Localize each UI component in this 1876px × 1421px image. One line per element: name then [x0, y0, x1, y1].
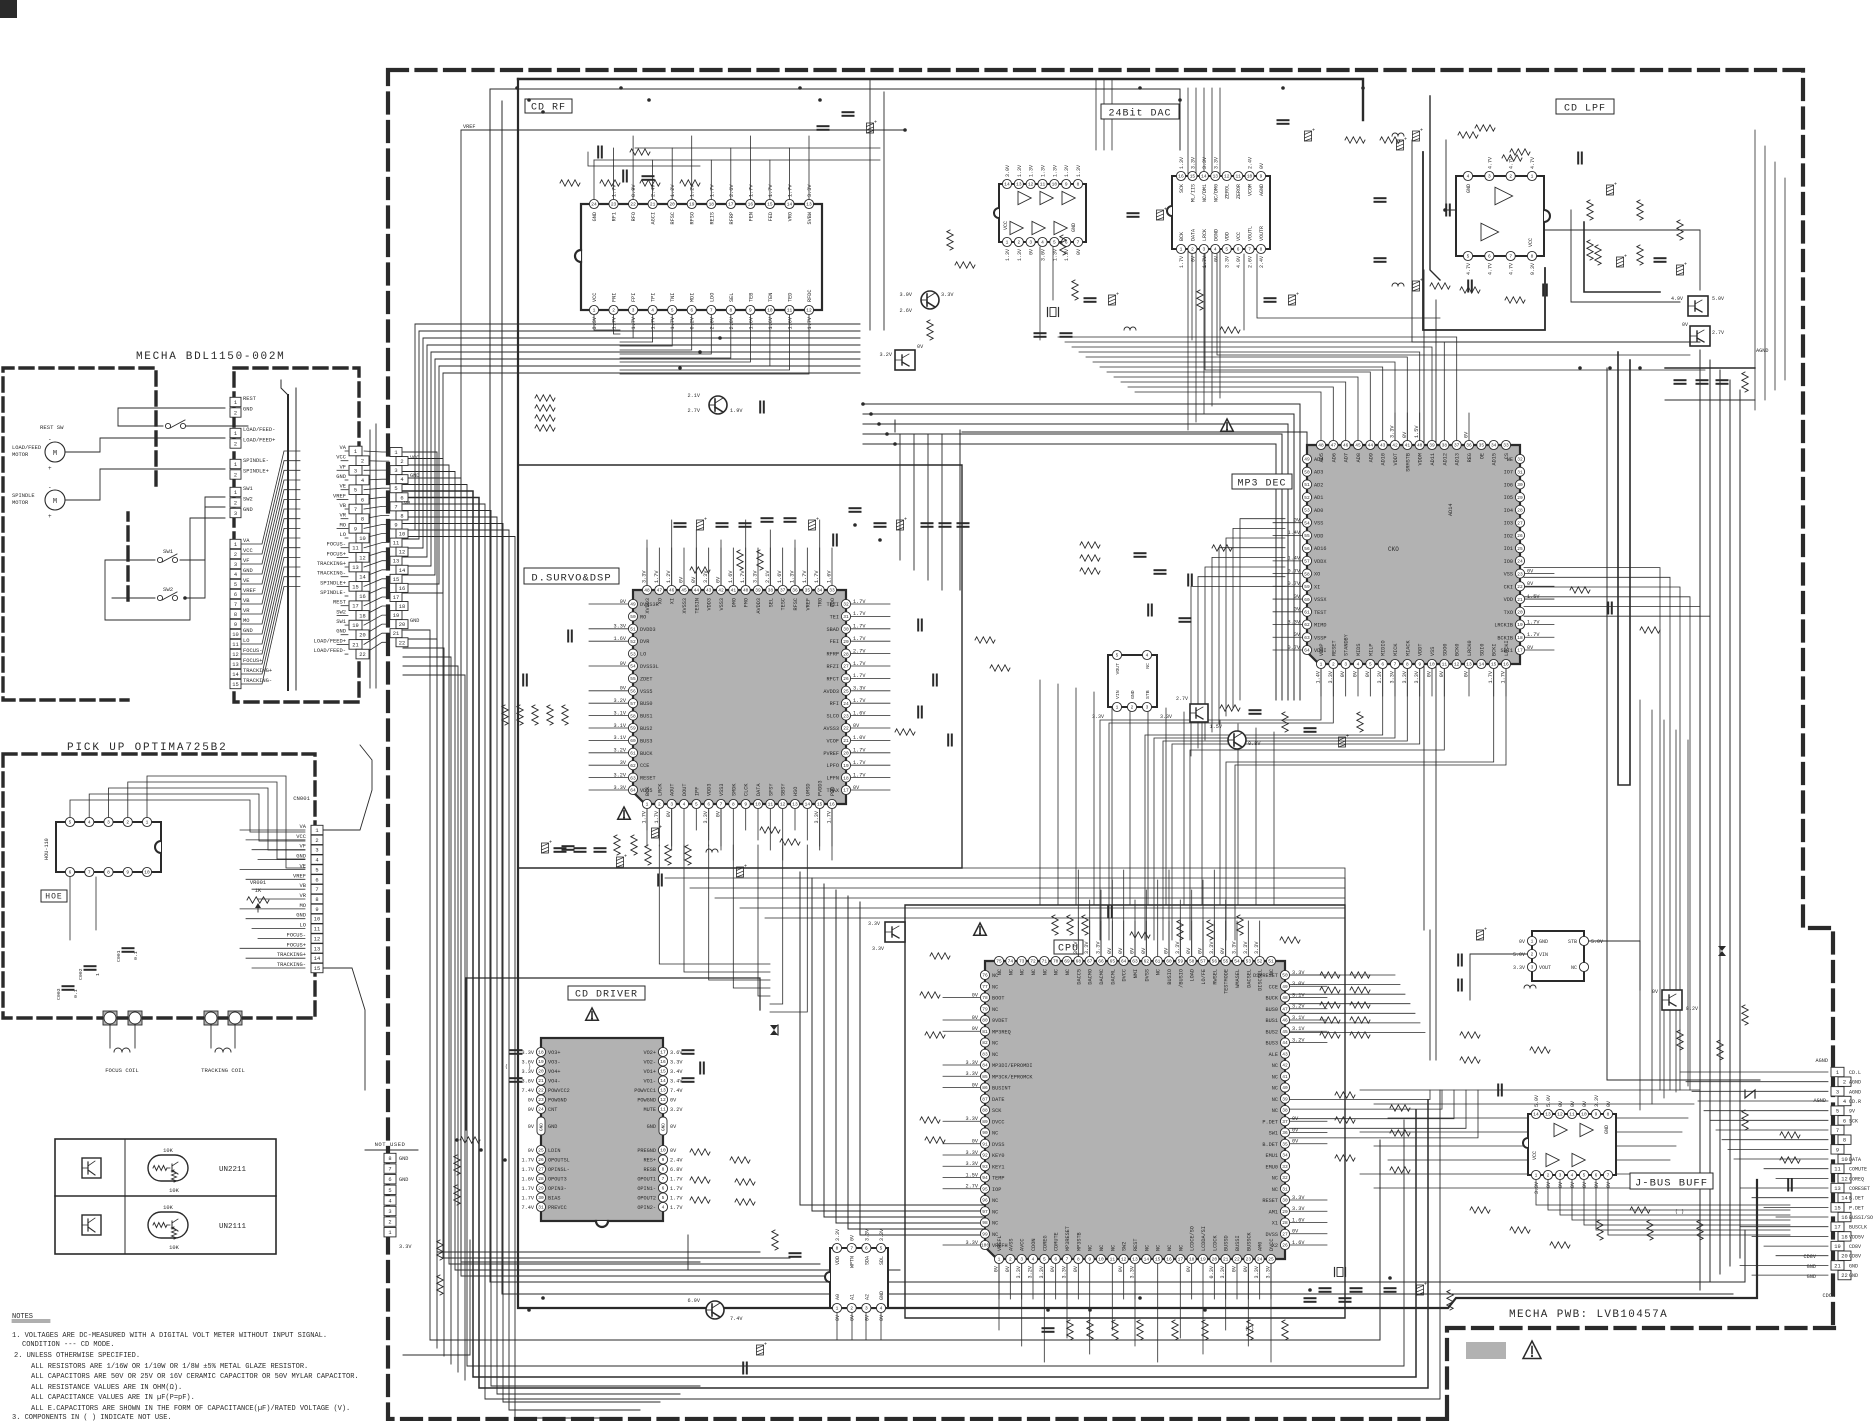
svg-text:51: 51 — [1304, 482, 1310, 488]
wire mp3-cpu v4 — [1111, 696, 1113, 905]
svg-text:3.3V: 3.3V — [853, 686, 866, 692]
svg-text:DVDD3: DVDD3 — [640, 627, 656, 633]
wire dsp top 14 — [819, 520, 821, 585]
svg-text:NC: NC — [992, 1221, 998, 1227]
svg-text:A2: A2 — [864, 1294, 870, 1300]
svg-text:4: 4 — [662, 1205, 665, 1211]
svg-text:2.1V: 2.1V — [765, 570, 771, 583]
svg-text:1: 1 — [1006, 240, 1009, 246]
svg-text:64: 64 — [630, 788, 636, 794]
svg-text:+: + — [1420, 278, 1423, 284]
capacitor C003 — [56, 986, 79, 1000]
svg-text:CD8V: CD8V — [1849, 1254, 1861, 1260]
wire dsp top 0 — [646, 540, 648, 585]
svg-text:BUS1: BUS1 — [640, 714, 652, 720]
wire dsp bot 1 — [658, 809, 660, 840]
svg-text:3: 3 — [632, 308, 635, 314]
svg-text:5: 5 — [1053, 240, 1056, 246]
svg-text:1.5V: 1.5V — [966, 1172, 979, 1178]
svg-text:1.3V: 1.3V — [1005, 249, 1011, 261]
svg-text:RFZI: RFZI — [827, 664, 839, 670]
wire top bus 1 — [518, 79, 1363, 120]
svg-text:91: 91 — [982, 1141, 988, 1147]
svg-text:RFO: RFO — [631, 212, 637, 221]
svg-text:+: + — [764, 1342, 767, 1348]
svg-text:VR: VR — [243, 608, 250, 614]
svg-text:FOCUS+: FOCUS+ — [287, 942, 306, 948]
svg-text:VO2-: VO2- — [644, 1060, 656, 1066]
wire cpu right 3 — [1289, 1003, 1410, 1005]
svg-text:99: 99 — [982, 1231, 988, 1237]
svg-text:3.1V: 3.1V — [1292, 1026, 1305, 1032]
svg-text:2: 2 — [1509, 174, 1512, 180]
svg-text:10: 10 — [1052, 182, 1058, 188]
svg-text:7: 7 — [1066, 1257, 1069, 1263]
wire left bus v12 — [403, 530, 640, 1410]
svg-text:TRO: TRO — [818, 598, 824, 607]
caps top mid2 — [1128, 120, 1316, 220]
svg-text:1: 1 — [998, 1257, 1001, 1263]
wire col link 13 — [364, 570, 389, 577]
wire col link 4 — [364, 488, 389, 490]
svg-text:3.3V: 3.3V — [1130, 1265, 1136, 1278]
svg-text:1.7V: 1.7V — [1501, 670, 1507, 683]
svg-text:38: 38 — [768, 588, 774, 594]
svg-text:81: 81 — [982, 1029, 988, 1035]
svg-text:71: 71 — [1042, 959, 1048, 965]
svg-text:SCK: SCK — [1179, 184, 1185, 193]
svg-text:SPINDLE+: SPINDLE+ — [243, 469, 269, 475]
svg-text:VCC: VCC — [592, 293, 598, 302]
svg-text:VSS: VSS — [1430, 647, 1436, 656]
svg-text:GND: GND — [243, 407, 253, 413]
cap cdrf b2 — [760, 402, 764, 413]
svg-text:11: 11 — [1040, 182, 1046, 188]
wire eeprom 1 — [836, 1313, 838, 1340]
svg-text:53: 53 — [1304, 508, 1310, 514]
svg-text:10: 10 — [1098, 1257, 1104, 1263]
svg-text:0.7V: 0.7V — [1288, 568, 1301, 574]
svg-text:VREF: VREF — [293, 873, 306, 879]
svg-text:14: 14 — [1533, 1112, 1539, 1118]
res jbus — [1460, 1030, 1723, 1096]
wire dsp top 8 — [745, 520, 747, 585]
svg-text:19: 19 — [538, 1059, 544, 1065]
svg-text:SBSY: SBSY — [781, 783, 787, 796]
wire cn001 loop bot — [323, 968, 365, 1090]
svg-text:ALL E.CAPACITORS ARE SHOWN IN: ALL E.CAPACITORS ARE SHOWN IN THE FORM O… — [31, 1405, 350, 1413]
svg-text:18: 18 — [399, 604, 405, 610]
svg-text:+: + — [48, 513, 52, 520]
svg-text:CORESET: CORESET — [1849, 1186, 1870, 1192]
svg-text:XI: XI — [670, 598, 676, 604]
svg-text:CCE: CCE — [1269, 984, 1278, 990]
wire left bus v4 — [403, 478, 880, 1276]
svg-text:D.SURVO&DSP: D.SURVO&DSP — [531, 573, 611, 585]
svg-text:1.6V: 1.6V — [728, 570, 734, 583]
svg-text:0V: 0V — [1402, 431, 1408, 438]
svg-text:SEL: SEL — [729, 293, 735, 302]
svg-text:VOUT: VOUT — [1115, 663, 1121, 675]
svg-text:1.7V: 1.7V — [853, 748, 866, 754]
svg-text:3: 3 — [1029, 240, 1032, 246]
cap dac1 — [1085, 205, 1450, 306]
svg-text:1.3V: 1.3V — [1052, 249, 1058, 261]
connector MECHA right — [314, 445, 369, 659]
svg-text:DACML: DACML — [1110, 969, 1116, 985]
svg-text:42: 42 — [1282, 1063, 1288, 1069]
wire conn right 1 — [1686, 1081, 1828, 1083]
svg-text:1.7V: 1.7V — [768, 184, 774, 197]
wire cpu right 6 — [1289, 1032, 1425, 1034]
svg-text:SW2: SW2 — [336, 609, 346, 615]
svg-text:13: 13 — [660, 1088, 666, 1094]
svg-text:NC: NC — [992, 1131, 998, 1137]
svg-text:11: 11 — [1235, 174, 1241, 180]
svg-text:28: 28 — [843, 651, 849, 657]
svg-text:11: 11 — [787, 308, 793, 314]
svg-text:0V: 0V — [1365, 670, 1371, 677]
wire mp3 bot 7 — [1163, 669, 1407, 940]
svg-text:5: 5 — [1116, 653, 1119, 659]
wire dsp top 4 — [695, 530, 697, 585]
svg-text:51: 51 — [630, 627, 636, 633]
svg-text:13: 13 — [1466, 662, 1472, 668]
svg-text:ML/IIS: ML/IIS — [1190, 184, 1196, 202]
svg-text:MO: MO — [300, 903, 306, 909]
svg-text:CD DRIVER: CD DRIVER — [575, 990, 638, 1001]
svg-text:0V: 0V — [972, 1082, 979, 1088]
svg-text:4: 4 — [1214, 247, 1217, 253]
wire mp3 bot 5 — [1145, 669, 1383, 940]
svg-text:AD10: AD10 — [1381, 453, 1387, 465]
svg-text:11: 11 — [660, 1107, 666, 1113]
xtal cpu — [1320, 1268, 1362, 1292]
svg-text:0V: 0V — [1652, 989, 1658, 995]
wire left bus v13 — [403, 537, 620, 1419]
svg-text:UMSD: UMSD — [805, 784, 811, 796]
wire dac down4 — [1205, 254, 1705, 370]
svg-text:MP3STB: MP3STB — [1076, 1232, 1082, 1251]
wire mecha conn 2 — [337, 469, 348, 471]
wire mp3-cpu v5 — [1129, 700, 1131, 905]
svg-text:3.3V: 3.3V — [1084, 941, 1090, 954]
wire mp3 right 2 — [1524, 587, 1680, 1090]
svg-text:8: 8 — [1077, 1257, 1080, 1263]
svg-text:4: 4 — [315, 858, 318, 864]
svg-text:10: 10 — [399, 532, 405, 538]
wire rb h1 — [1374, 1103, 1694, 1105]
svg-text:0V: 0V — [528, 1148, 535, 1154]
connector NOT USED — [365, 1141, 418, 1250]
svg-text:1.7V: 1.7V — [522, 1186, 535, 1192]
res mp3 right — [1570, 587, 1660, 633]
wire right ring — [1618, 352, 1630, 785]
svg-text:AD4: AD4 — [1314, 457, 1323, 463]
svg-text:NC: NC — [1272, 1108, 1278, 1114]
svg-text:GND: GND — [243, 568, 253, 574]
title PICK UP OPTIMA725B2 — [67, 742, 228, 754]
wire mecha bundle 2 — [241, 470, 300, 564]
svg-text:13: 13 — [1545, 1112, 1551, 1118]
svg-text:TRACKING-: TRACKING- — [277, 962, 306, 968]
svg-text:1.7V: 1.7V — [642, 810, 648, 823]
svg-text:BUS3: BUS3 — [1266, 1041, 1278, 1047]
svg-text:NC: NC — [992, 1198, 998, 1204]
wire mp3-jbus v1 — [1651, 710, 1653, 1104]
wire dsp bot 7 — [732, 809, 734, 860]
svg-text:XVSS3: XVSS3 — [682, 598, 688, 614]
svg-text:8: 8 — [1077, 182, 1080, 188]
wire left bus v10 — [403, 517, 680, 1394]
svg-text:5: 5 — [1043, 1257, 1046, 1263]
svg-text:SW2: SW2 — [1122, 1242, 1128, 1251]
svg-text:12: 12 — [1028, 182, 1034, 188]
svg-text:0V: 0V — [879, 1315, 885, 1321]
svg-text:DVSS3R: DVSS3R — [640, 602, 659, 608]
svg-text:DATA: DATA — [1849, 1157, 1861, 1163]
svg-text:LRCK: LRCK — [657, 783, 663, 796]
svg-text:NC: NC — [1031, 969, 1037, 975]
svg-text:1: 1 — [95, 973, 101, 976]
svg-text:34: 34 — [1282, 1153, 1288, 1159]
IC 5V regulator — [1513, 931, 1603, 981]
svg-text:6: 6 — [234, 592, 237, 598]
svg-text:AM0: AM0 — [1258, 1242, 1264, 1251]
wire right bus v4 — [1739, 390, 1741, 1258]
svg-text:17: 17 — [1834, 1225, 1840, 1231]
svg-text:OPOUT1: OPOUT1 — [637, 1177, 656, 1183]
svg-text:32: 32 — [1517, 457, 1523, 463]
wire dsp-cpu h0 — [640, 868, 1345, 960]
svg-text:1: 1 — [1531, 939, 1534, 945]
svg-text:DATE: DATE — [992, 1097, 1004, 1103]
svg-text:TRACKING+: TRACKING+ — [243, 668, 272, 674]
svg-text:MUTE: MUTE — [644, 1107, 656, 1113]
svg-text:8: 8 — [400, 513, 403, 519]
svg-text:NC: NC — [1042, 969, 1048, 975]
svg-text:4: 4 — [880, 1306, 883, 1312]
svg-text:19: 19 — [352, 623, 358, 629]
svg-text:2: 2 — [388, 1220, 391, 1226]
svg-text:DOUT: DOUT — [682, 784, 688, 796]
wire cpu right 2 — [1289, 993, 1405, 995]
wire mp3 top 2 — [1121, 382, 1346, 440]
svg-text:OPIN1-: OPIN1- — [637, 1186, 656, 1192]
wire cpu top 10 — [1111, 880, 1113, 956]
wire mecha v2 — [295, 388, 297, 690]
svg-text:2.1V: 2.1V — [688, 393, 701, 399]
svg-text:SDL: SDL — [879, 1256, 885, 1265]
svg-text:8.2V: 8.2V — [1686, 1006, 1698, 1012]
svg-text:1.7V: 1.7V — [827, 810, 833, 823]
svg-text:46: 46 — [669, 588, 675, 594]
wire cdrf pin down 2 — [620, 315, 633, 338]
svg-text:BUS3: BUS3 — [640, 738, 652, 744]
svg-text:MIDS: MIDS — [1356, 644, 1362, 656]
wire cdrf pin down 10 — [620, 315, 790, 370]
svg-text:54: 54 — [1234, 959, 1240, 965]
diode drv — [770, 1025, 778, 1035]
caps dsp bottom — [555, 845, 748, 886]
res dsp left col — [502, 705, 568, 725]
svg-text:21: 21 — [393, 631, 399, 637]
svg-text:1.5V: 1.5V — [1210, 724, 1223, 730]
wire conn right 4 — [1704, 1110, 1828, 1112]
wire col link 11 — [364, 552, 389, 558]
svg-text:MP3CK/EPROMCK: MP3CK/EPROMCK — [992, 1074, 1033, 1080]
svg-text:2.0V: 2.0V — [709, 316, 715, 329]
svg-text:7: 7 — [315, 887, 318, 893]
svg-text:67: 67 — [1087, 959, 1093, 965]
svg-text:GND: GND — [1849, 1273, 1858, 1279]
svg-text:15: 15 — [1190, 174, 1196, 180]
svg-text:RESB: RESB — [644, 1167, 656, 1173]
svg-text:22: 22 — [630, 202, 636, 208]
label CD RF — [525, 99, 572, 114]
res mp3 bot — [1220, 705, 1363, 747]
capacitor C001 — [116, 948, 139, 962]
svg-text:32: 32 — [1282, 1175, 1288, 1181]
svg-text:65: 65 — [1110, 959, 1116, 965]
svg-text:1: 1 — [394, 450, 397, 456]
svg-text:5.0V: 5.0V — [1591, 939, 1603, 945]
svg-text:14: 14 — [1201, 174, 1207, 180]
svg-text:0.7V: 0.7V — [1288, 645, 1301, 651]
svg-text:BCK0: BCK0 — [1455, 644, 1461, 656]
svg-text:0V: 0V — [670, 1098, 677, 1104]
svg-text:DACSEL: DACSEL — [1246, 969, 1252, 988]
svg-text:0V: 0V — [679, 576, 685, 583]
svg-text:VDDT: VDDT — [1393, 453, 1399, 465]
svg-text:14: 14 — [1841, 1196, 1847, 1202]
svg-text:DATA: DATA — [1190, 229, 1196, 241]
svg-text:3.3V: 3.3V — [1073, 941, 1079, 954]
svg-text:3.3V: 3.3V — [670, 1060, 683, 1066]
svg-text:61: 61 — [1155, 959, 1161, 965]
svg-text:3: 3 — [1488, 174, 1491, 180]
wire mp3 top 8 — [1079, 352, 1420, 440]
svg-text:5: 5 — [315, 867, 318, 873]
svg-text:IO5: IO5 — [1504, 495, 1513, 501]
svg-text:20: 20 — [669, 202, 675, 208]
svg-text:+: + — [624, 854, 627, 860]
svg-text:2.6V: 2.6V — [900, 308, 913, 314]
svg-text:50: 50 — [630, 614, 636, 620]
svg-text:EMU0: EMU0 — [1266, 1164, 1278, 1170]
svg-text:GND: GND — [1849, 1263, 1858, 1269]
svg-text:6: 6 — [1381, 662, 1384, 668]
svg-text:1.7V: 1.7V — [748, 184, 754, 197]
svg-text:6.8V: 6.8V — [670, 1167, 683, 1173]
svg-text:3: 3 — [1531, 965, 1534, 971]
svg-text:+: + — [744, 864, 747, 870]
wire mecha col v2 — [375, 424, 377, 688]
svg-text:26: 26 — [1517, 533, 1523, 539]
res cpu top — [1052, 907, 1300, 944]
svg-text:44: 44 — [1368, 443, 1374, 449]
wire mp3 left 2 — [1226, 538, 1285, 716]
svg-text:52: 52 — [1304, 495, 1310, 501]
svg-text:4.7V: 4.7V — [1509, 157, 1515, 169]
svg-text:AD16: AD16 — [1314, 546, 1326, 552]
svg-text:12: 12 — [780, 802, 786, 808]
svg-text:RFSC: RFSC — [793, 598, 799, 610]
svg-text:0V: 0V — [1050, 1265, 1056, 1272]
resistor cdrf2 — [560, 180, 700, 186]
wire left bus v8 — [403, 504, 1440, 1399]
svg-text:16: 16 — [399, 586, 405, 592]
svg-text:SLCO: SLCO — [827, 714, 839, 720]
svg-text:0.1: 0.1 — [73, 989, 79, 998]
svg-text:VO3+: VO3+ — [548, 1050, 560, 1056]
svg-text:SDI0: SDI0 — [1479, 644, 1485, 656]
svg-text:IOP: IOP — [992, 1187, 1001, 1193]
svg-text:VCC: VCC — [296, 834, 306, 840]
svg-text:RFSO: RFSO — [690, 212, 696, 224]
svg-text:87: 87 — [982, 1096, 988, 1102]
svg-text:76: 76 — [982, 973, 988, 979]
wire cpu bot 14 — [1157, 1264, 1159, 1362]
svg-text:14: 14 — [805, 802, 811, 808]
svg-text:VOUTR: VOUTR — [1259, 226, 1265, 241]
svg-text:WMASEL: WMASEL — [1235, 969, 1241, 988]
svg-text:1: 1 — [593, 308, 596, 314]
svg-text:2.0V: 2.0V — [729, 316, 735, 329]
svg-text:AGND: AGND — [1816, 1058, 1828, 1064]
res bundle cdrf left — [535, 395, 555, 431]
svg-text:GND: GND — [879, 1291, 885, 1300]
svg-text:97: 97 — [982, 1209, 988, 1215]
svg-text:49: 49 — [630, 602, 636, 608]
svg-text:REST: REST — [333, 600, 347, 606]
svg-text:2: 2 — [1131, 705, 1134, 711]
svg-text:90: 90 — [982, 1130, 988, 1136]
svg-text:0V: 0V — [716, 576, 722, 583]
svg-text:MICK: MICK — [1393, 643, 1399, 656]
svg-text:RWSEL: RWSEL — [1212, 969, 1218, 985]
svg-text:18: 18 — [1189, 1257, 1195, 1263]
svg-text:7: 7 — [1836, 1128, 1839, 1134]
svg-text:2: 2 — [612, 308, 615, 314]
svg-text:1: 1 — [146, 820, 149, 826]
svg-text:21: 21 — [1223, 1257, 1229, 1263]
wire rb h2 — [1388, 1117, 1688, 1119]
wire dsp topright v3 — [941, 434, 943, 590]
wire cpu top 14 — [1157, 880, 1159, 956]
wire cdrf pin up 9 — [769, 160, 771, 199]
svg-text:80: 80 — [982, 1018, 988, 1024]
svg-text:0V: 0V — [1439, 670, 1445, 677]
wire cn001 10 — [252, 928, 305, 930]
svg-text:29: 29 — [538, 1186, 544, 1192]
wire cdrf pin down 9 — [620, 315, 770, 366]
svg-text:3.3V: 3.3V — [1039, 1265, 1045, 1278]
svg-text:0V: 0V — [853, 785, 860, 791]
wire mecha bundle 14 — [241, 586, 300, 684]
svg-text:AGND: AGND — [1849, 1080, 1861, 1086]
svg-text:2: 2 — [658, 802, 661, 808]
svg-text:VA: VA — [340, 445, 347, 451]
svg-text:AGND: AGND — [1849, 1089, 1861, 1095]
svg-text:22: 22 — [1841, 1273, 1847, 1279]
svg-text:TESC: TESC — [781, 598, 787, 610]
svg-text:NC: NC — [1272, 1086, 1278, 1092]
svg-text:NC: NC — [1008, 969, 1014, 975]
svg-text:3.3V: 3.3V — [1092, 714, 1104, 720]
svg-text:FPI: FPI — [631, 293, 637, 302]
res drv below — [437, 1137, 480, 1295]
